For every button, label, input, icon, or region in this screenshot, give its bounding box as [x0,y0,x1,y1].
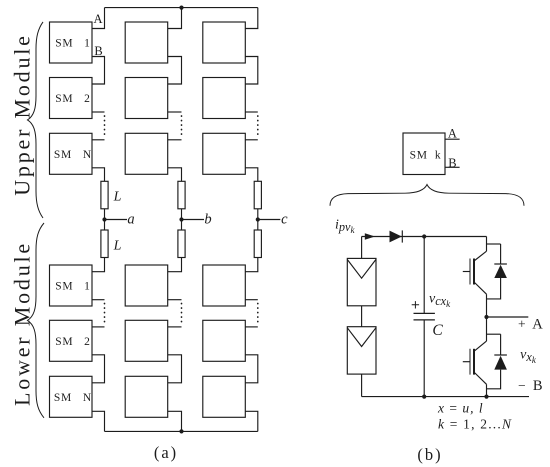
svg-text:(a): (a) [154,443,178,462]
svg-text:SM 1: SM 1 [55,38,91,50]
svg-text:SM 2: SM 2 [55,93,91,105]
svg-text:b: b [204,212,211,228]
svg-text:SM 2: SM 2 [55,336,91,348]
svg-text:SM N: SM N [54,149,92,161]
svg-text:C: C [432,322,443,339]
svg-text:B: B [448,156,456,170]
svg-text:a: a [127,212,134,228]
svg-text:x = u, l: x = u, l [437,401,484,416]
svg-text:B: B [94,44,102,58]
svg-text:(b): (b) [417,445,442,464]
svg-text:L: L [113,239,122,254]
svg-text:A: A [448,126,457,140]
svg-text:−: − [518,378,526,393]
svg-text:c: c [281,212,288,228]
svg-text:Upper Module: Upper Module [10,33,35,196]
svg-text:L: L [113,190,122,205]
svg-text:SM 1: SM 1 [55,281,91,293]
svg-text:A: A [93,12,102,26]
svg-text:SM k: SM k [410,150,442,162]
svg-text:B: B [533,378,543,394]
svg-text:A: A [532,317,543,333]
svg-text:+: + [518,317,526,332]
svg-text:SM N: SM N [54,392,92,404]
svg-text:Lower Module: Lower Module [10,241,35,406]
svg-text:k = 1, 2...N: k = 1, 2...N [438,417,512,432]
